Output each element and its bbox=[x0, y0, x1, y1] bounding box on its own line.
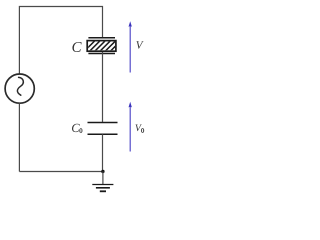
wire middle bbox=[102, 52, 104, 122]
junction node bbox=[101, 170, 104, 173]
wire bottom bbox=[19, 171, 103, 173]
voltage arrow V0 bbox=[129, 102, 132, 152]
AC source G1 bbox=[5, 74, 34, 103]
wire lower right bbox=[102, 134, 104, 171]
capacitor C0 bbox=[88, 123, 118, 135]
label C bbox=[72, 42, 81, 52]
label V0 bbox=[135, 125, 141, 132]
label V bbox=[136, 41, 143, 49]
wire left lower bbox=[18, 103, 20, 171]
voltage arrow V bbox=[129, 21, 132, 72]
label C0 bbox=[72, 124, 80, 132]
capacitor C top plate bbox=[88, 37, 115, 39]
capacitor C dielectric box bbox=[84, 40, 122, 52]
capacitor C bottom plate bbox=[88, 53, 115, 55]
ground bbox=[92, 172, 113, 192]
wire top and left loop bbox=[19, 7, 102, 74]
